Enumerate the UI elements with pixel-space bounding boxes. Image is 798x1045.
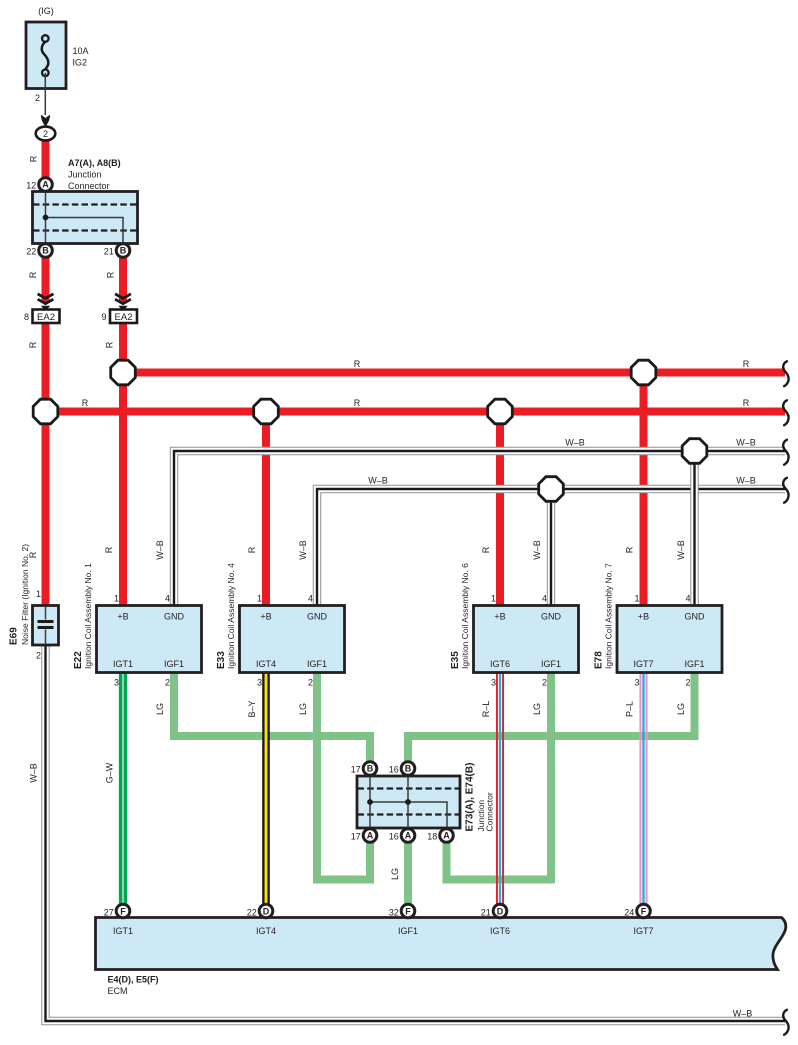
svg-text:R: R (104, 341, 114, 348)
oval connector 2 (36, 127, 56, 141)
svg-text:W–B: W–B (736, 438, 756, 448)
svg-text:B–Y: B–Y (247, 700, 257, 717)
octagon junction bus1/E78 (631, 360, 656, 385)
svg-text:Ignition Coil Assembly No. 1: Ignition Coil Assembly No. 1 (83, 563, 93, 669)
svg-text:A: A (367, 831, 374, 841)
svg-text:R: R (82, 398, 89, 408)
arrow chevrons into EA2 no.9 (115, 294, 131, 311)
svg-text:W–B: W–B (736, 476, 756, 486)
svg-text:22: 22 (247, 908, 257, 918)
svg-text:2: 2 (165, 678, 170, 688)
svg-text:4: 4 (165, 594, 170, 604)
wire: LG from E73 pin 16B right to E78 IGF1 (408, 672, 695, 764)
svg-text:IGF1: IGF1 (684, 659, 704, 669)
svg-text:EA2: EA2 (37, 312, 55, 323)
svg-text:17: 17 (351, 832, 361, 842)
wire: W-B bus 2 from E33 GND corner to right edge (y=489) (317, 489, 785, 606)
svg-text:Connector: Connector (68, 181, 110, 191)
wire: thin lead from fuse to arrow (44, 73, 46, 115)
svg-text:(IG): (IG) (38, 6, 54, 16)
svg-text:R: R (28, 341, 38, 348)
svg-text:+B: +B (494, 612, 505, 622)
svg-text:E4(D), E5(F): E4(D), E5(F) (108, 975, 159, 985)
svg-text:2: 2 (35, 93, 40, 103)
wire: red drop to E35 +B (496, 412, 504, 606)
svg-text:Ignition Coil Assembly No. 7: Ignition Coil Assembly No. 7 (604, 563, 614, 669)
svg-text:Ignition Coil Assembly No. 4: Ignition Coil Assembly No. 4 (226, 563, 236, 669)
EA2 box no.8 (33, 310, 60, 324)
svg-text:W–B: W–B (298, 540, 308, 560)
arrow chevrons into EA2 no.8 (38, 294, 54, 311)
pin 21D of ECM (IGT6) (493, 904, 507, 918)
ignition coil assembly no.1 E22 box (73, 563, 202, 688)
wire: LG from E22 IGF1 right to E73 pin 17B (174, 672, 370, 764)
torn end of red bus 1 (783, 361, 788, 386)
svg-text:R: R (625, 546, 635, 553)
wire: R-L from E35 IGT6 to ECM pin 21D (497, 672, 503, 906)
svg-text:32: 32 (389, 908, 399, 918)
svg-text:B: B (120, 246, 127, 256)
svg-text:1: 1 (634, 594, 639, 604)
svg-text:R–L: R–L (481, 701, 491, 718)
svg-text:ECM: ECM (108, 986, 128, 996)
svg-text:E69: E69 (9, 627, 20, 645)
svg-text:IGF1: IGF1 (164, 659, 184, 669)
pin 16B of E73 (401, 762, 415, 776)
pin B (22) of A8 (39, 244, 53, 258)
svg-text:IGT1: IGT1 (113, 926, 133, 936)
torn end of W-B bus 2 (783, 478, 788, 503)
noise filter E69 box (33, 606, 59, 646)
svg-text:B: B (405, 764, 412, 774)
pin B (21) of A8 (116, 244, 130, 258)
svg-text:LG: LG (676, 703, 686, 715)
svg-text:W–B: W–B (565, 438, 585, 448)
svg-text:W–B: W–B (676, 540, 686, 560)
svg-text:9: 9 (101, 312, 106, 322)
svg-text:3: 3 (114, 678, 119, 688)
svg-text:F: F (405, 907, 411, 917)
svg-text:Ignition Coil Assembly No. 6: Ignition Coil Assembly No. 6 (460, 563, 470, 669)
svg-text:12: 12 (26, 181, 36, 191)
svg-text:R: R (743, 359, 750, 369)
svg-text:LG: LG (532, 703, 542, 715)
EA2 box no.9 (110, 310, 137, 324)
svg-text:A: A (42, 180, 49, 190)
svg-text:D: D (263, 907, 270, 917)
svg-text:Connector: Connector (485, 792, 495, 831)
pin 32F of ECM (IGF1) (401, 904, 415, 918)
svg-text:IGF1: IGF1 (541, 659, 561, 669)
wire: red drop to E78 +B (640, 373, 648, 606)
wire: P-L from E78 IGT7 to ECM pin 24F (640, 672, 646, 906)
svg-text:10A: 10A (73, 46, 89, 56)
svg-text:27: 27 (104, 908, 114, 918)
svg-text:21: 21 (481, 908, 491, 918)
pin 16A of E73 (401, 829, 415, 843)
svg-text:8: 8 (24, 312, 29, 322)
svg-text:D: D (497, 907, 504, 917)
wire: LG from E33 IGF1 down and to E73 pin 17A (317, 672, 370, 880)
octagon junction bus2/EA2-8 (33, 399, 58, 424)
wire: W-B from noise filter pin 2 down and right along bottom (46, 645, 786, 1021)
svg-text:R: R (743, 398, 750, 408)
svg-text:R: R (29, 155, 39, 162)
svg-text:W–B: W–B (733, 1009, 753, 1019)
svg-text:A7(A), A8(B): A7(A), A8(B) (68, 158, 121, 168)
svg-text:R: R (354, 359, 361, 369)
svg-text:EA2: EA2 (115, 312, 133, 323)
svg-text:F: F (641, 907, 647, 917)
svg-text:1: 1 (491, 594, 496, 604)
octagon junction bus1/EA2-9 (111, 360, 136, 385)
svg-text:W–B: W–B (29, 763, 39, 783)
svg-text:IGT4: IGT4 (256, 659, 276, 669)
wire: red from junction A7 pin B21 down to EA2 no.9 and to E22 coil +B (119, 257, 127, 303)
ignition coil assembly no.4 E33 box (216, 563, 345, 688)
svg-text:IGF1: IGF1 (307, 659, 327, 669)
svg-text:IGT7: IGT7 (633, 926, 653, 936)
wire: W-B from bus2 octagon down to E35 GND (547, 489, 555, 606)
pin 17A of E73 (363, 829, 377, 843)
pin 27F of ECM (IGT1) (116, 904, 130, 918)
wire: G-W from E22 IGT1 to ECM pin 27F (121, 672, 126, 906)
ignition coil assembly no.6 E35 box (450, 563, 579, 688)
svg-text:R: R (105, 271, 115, 278)
svg-text:18: 18 (427, 832, 437, 842)
svg-text:R: R (481, 546, 491, 553)
svg-text:F: F (120, 907, 126, 917)
torn end of red bus 2 (783, 400, 788, 425)
wire: W-B bus 1 from E22 GND corner to right edge (y=451) (174, 451, 785, 606)
wire: red from junction A7 pin B22 down to EA2 no.8 and to bus/noise filter (42, 257, 50, 303)
svg-text:P–L: P–L (625, 701, 635, 717)
svg-text:R: R (247, 546, 257, 553)
svg-text:Junction: Junction (68, 170, 102, 180)
octagon junction W-B bus2/E35 GND (539, 477, 564, 502)
svg-text:1: 1 (36, 589, 41, 599)
wire: red bus 1 (horizontal, y=372.5) (123, 369, 785, 377)
ignition coil assembly no.7 E78 box (594, 563, 723, 688)
svg-text:W–B: W–B (532, 540, 542, 560)
svg-text:GND: GND (164, 612, 185, 622)
octagon junction bus2/E35 (488, 399, 513, 424)
svg-text:4: 4 (685, 594, 690, 604)
torn end of bottom W-B wire (783, 1010, 788, 1035)
svg-text:22: 22 (26, 247, 36, 257)
wire: LG from E35 IGF1 down and to E73 pin 18A (447, 672, 552, 880)
svg-text:3: 3 (257, 678, 262, 688)
svg-text:LG: LG (390, 868, 400, 880)
junction connector A7/A8 box (33, 192, 138, 244)
svg-text:B: B (367, 764, 374, 774)
svg-text:W–B: W–B (368, 476, 388, 486)
svg-text:E73(A), E74(B): E73(A), E74(B) (465, 763, 476, 832)
svg-text:3: 3 (634, 678, 639, 688)
svg-text:2: 2 (685, 678, 690, 688)
svg-text:Noise Filter (Ignition No. 2): Noise Filter (Ignition No. 2) (20, 544, 30, 645)
svg-text:2: 2 (43, 129, 48, 139)
svg-text:R: R (354, 398, 361, 408)
fuse IG2 (IG) (26, 22, 66, 89)
svg-text:1: 1 (257, 594, 262, 604)
svg-text:2: 2 (308, 678, 313, 688)
svg-text:R: R (104, 546, 114, 553)
svg-text:W–B: W–B (155, 540, 165, 560)
wire: B-Y from E33 IGT4 to ECM pin 22D (262, 672, 270, 906)
svg-text:R: R (28, 271, 38, 278)
svg-text:4: 4 (308, 594, 313, 604)
svg-text:+B: +B (117, 612, 128, 622)
svg-text:IGT6: IGT6 (490, 659, 510, 669)
wire: red bus 2 (horizontal, y=411.5) (46, 408, 786, 416)
svg-text:16: 16 (389, 765, 399, 775)
svg-text:1: 1 (114, 594, 119, 604)
svg-text:B: B (42, 246, 49, 256)
svg-text:17: 17 (351, 765, 361, 775)
svg-text:IGT6: IGT6 (490, 926, 510, 936)
svg-text:A: A (443, 831, 450, 841)
svg-text:LG: LG (298, 703, 308, 715)
wire: red from oval 2 to junction A7 pin A (42, 139, 50, 178)
svg-text:2: 2 (542, 678, 547, 688)
svg-text:21: 21 (104, 247, 114, 257)
wire: W-B from bus1 octagon down to E78 GND (690, 451, 698, 606)
pin 18A of E73 (440, 829, 454, 843)
svg-text:GND: GND (685, 612, 706, 622)
svg-text:+B: +B (638, 612, 649, 622)
svg-text:IGF1: IGF1 (398, 926, 418, 936)
wire: red drop to E33 +B (262, 412, 270, 606)
svg-text:LG: LG (155, 703, 165, 715)
ECM box with torn right edge (96, 918, 786, 970)
svg-text:16: 16 (389, 832, 399, 842)
pin 24F of ECM (IGT7) (637, 904, 651, 918)
pin A (12) of A7 (39, 178, 53, 192)
svg-text:G–W: G–W (105, 762, 115, 783)
svg-text:2: 2 (36, 651, 41, 661)
svg-text:3: 3 (491, 678, 496, 688)
junction connector E73/E74 box (357, 776, 460, 828)
pin 17B of E73 (363, 762, 377, 776)
wire: LG from E73 pin 16A down to ECM pin 32F (404, 831, 412, 906)
svg-text:GND: GND (541, 612, 562, 622)
octagon junction W-B bus1/E78 GND (682, 439, 707, 464)
torn end of W-B bus 1 (783, 440, 788, 465)
svg-text:GND: GND (307, 612, 328, 622)
svg-text:+B: +B (260, 612, 271, 622)
svg-text:24: 24 (624, 908, 634, 918)
svg-text:IGT7: IGT7 (633, 659, 653, 669)
svg-text:4: 4 (542, 594, 547, 604)
arrow into oval connector 2 (41, 115, 50, 127)
svg-text:IGT4: IGT4 (256, 926, 276, 936)
svg-text:IGT1: IGT1 (113, 659, 133, 669)
svg-text:IG2: IG2 (73, 58, 88, 68)
octagon junction bus2/E33 (254, 399, 279, 424)
pin 22D of ECM (IGT4) (259, 904, 273, 918)
svg-text:A: A (405, 831, 412, 841)
